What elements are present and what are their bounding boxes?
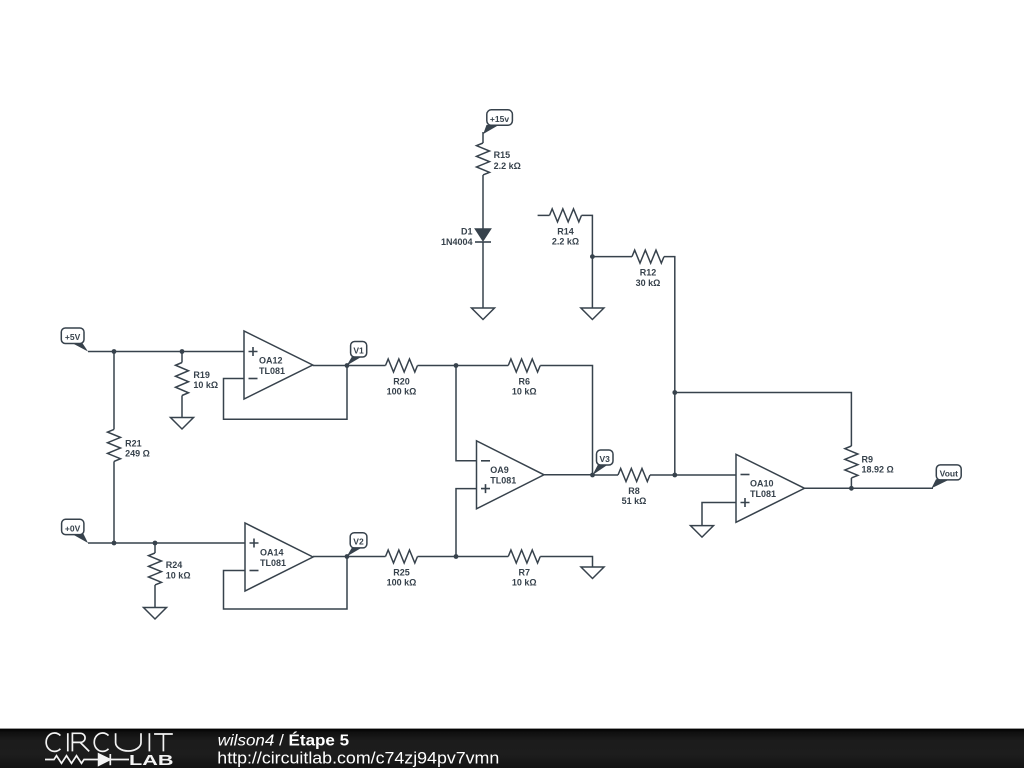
diode D1 bbox=[441, 226, 491, 247]
flag V3 bbox=[593, 450, 614, 475]
label R21 bbox=[125, 439, 150, 459]
label R19 bbox=[193, 370, 218, 390]
svg-text:R8: R8 bbox=[628, 486, 640, 496]
resistor R20 bbox=[386, 359, 418, 372]
logo diode symbol bbox=[99, 754, 129, 765]
label R7 bbox=[512, 568, 537, 588]
op-amp U4 OA10 bbox=[736, 454, 805, 522]
resistor R19 bbox=[176, 363, 189, 396]
wire R15 to diode D1 bbox=[482, 175, 484, 229]
node E junction R12/R9 rail bbox=[672, 390, 677, 395]
svg-text:V1: V1 bbox=[353, 346, 364, 356]
ground (OA10 +) bbox=[691, 526, 714, 538]
wire R19 to ground bbox=[181, 396, 183, 418]
svg-text:10 kΩ: 10 kΩ bbox=[512, 387, 537, 397]
svg-text:10 kΩ: 10 kΩ bbox=[193, 380, 218, 390]
op-amp U1 OA12 bbox=[244, 331, 313, 399]
wire node B to R7 bbox=[456, 556, 508, 558]
node V1 junction bbox=[345, 363, 350, 368]
wire node D to ground bbox=[591, 257, 593, 308]
label R24 bbox=[166, 560, 191, 581]
op-amp U3 OA9 bbox=[477, 441, 545, 509]
node C junction R8/R12 bbox=[672, 473, 677, 478]
wire OA9 noninverting input dropper bbox=[456, 489, 477, 557]
wire +5V rail to OA12 + input bbox=[88, 351, 244, 353]
svg-text:R19: R19 bbox=[193, 370, 210, 380]
svg-text:249 Ω: 249 Ω bbox=[125, 448, 150, 458]
wire node C to OA10 inverting input bbox=[675, 474, 736, 476]
resistor R12 bbox=[632, 250, 664, 263]
flag +5V bbox=[61, 328, 88, 352]
label R25 bbox=[387, 568, 417, 588]
wire R7 to ground bbox=[540, 557, 592, 568]
svg-text:100 kΩ: 100 kΩ bbox=[387, 387, 417, 397]
wire node D to R12 bbox=[592, 256, 632, 258]
wire OA10 noninverting input to ground bbox=[702, 503, 736, 526]
resistor R25 bbox=[386, 550, 418, 563]
ground (R7) bbox=[581, 567, 604, 579]
resistor R24 bbox=[149, 553, 162, 585]
svg-text:10 kΩ: 10 kΩ bbox=[512, 578, 537, 588]
svg-text:R24: R24 bbox=[166, 560, 183, 570]
wire OA12 output to V1 node bbox=[313, 365, 347, 367]
label R15 bbox=[494, 150, 521, 171]
svg-text:R12: R12 bbox=[640, 268, 657, 278]
ground (R19) bbox=[171, 418, 194, 430]
svg-text:2.2 kΩ: 2.2 kΩ bbox=[552, 236, 579, 246]
wire R24 branch top lead bbox=[154, 543, 156, 553]
wire node A to R6 bbox=[456, 365, 508, 367]
node junction +0V/R24 bbox=[153, 541, 158, 546]
svg-text:wilson4 / Étape 5: wilson4 / Étape 5 bbox=[218, 731, 350, 750]
node V3 junction bbox=[590, 473, 595, 478]
svg-text:R21: R21 bbox=[125, 439, 142, 449]
wire OA9 inverting input riser bbox=[456, 366, 477, 461]
resistor R8 bbox=[618, 469, 650, 482]
svg-text:R6: R6 bbox=[518, 377, 530, 387]
wire V3 node to R8 bbox=[593, 474, 619, 476]
label R12 bbox=[636, 268, 661, 288]
svg-text:R20: R20 bbox=[393, 377, 410, 387]
svg-text:R25: R25 bbox=[393, 568, 410, 578]
wire R20 to node A bbox=[418, 365, 457, 367]
svg-text:http://circuitlab.com/c74zj94p: http://circuitlab.com/c74zj94pv7vmn bbox=[217, 748, 499, 767]
wire R12 right down to node C bbox=[664, 257, 675, 475]
wire R21 branch top lead bbox=[113, 352, 115, 430]
svg-text:TL081: TL081 bbox=[750, 489, 776, 499]
resistor R9 bbox=[845, 446, 858, 478]
node junction +5V/R21 bbox=[112, 349, 117, 354]
wire +15v flag stem bbox=[482, 132, 484, 143]
wire V2 node to R25 bbox=[347, 556, 386, 558]
wire R14 right to node D bbox=[582, 215, 593, 256]
svg-text:V2: V2 bbox=[353, 537, 364, 547]
svg-text:R7: R7 bbox=[518, 568, 530, 578]
wire node E feedback rail to R9 bbox=[675, 393, 852, 447]
svg-text:V3: V3 bbox=[599, 454, 610, 464]
svg-text:51 kΩ: 51 kΩ bbox=[622, 496, 647, 506]
ground (D1) bbox=[472, 308, 495, 320]
svg-text:OA12: OA12 bbox=[259, 356, 283, 366]
svg-text:2.2 kΩ: 2.2 kΩ bbox=[494, 161, 521, 171]
svg-text:R9: R9 bbox=[862, 455, 874, 465]
svg-text:1N4004: 1N4004 bbox=[441, 237, 473, 247]
svg-text:LAB: LAB bbox=[129, 753, 174, 768]
resistor R15 bbox=[477, 143, 490, 175]
flag +15v bbox=[483, 110, 512, 134]
flag +0V bbox=[62, 519, 88, 543]
svg-text:OA9: OA9 bbox=[490, 465, 509, 475]
node A junction R20/R6 bbox=[454, 363, 459, 368]
svg-text:Vout: Vout bbox=[940, 469, 958, 479]
svg-text:TL081: TL081 bbox=[260, 558, 286, 568]
svg-text:TL081: TL081 bbox=[259, 366, 285, 376]
wire R21 bottom lead bbox=[113, 461, 115, 543]
svg-text:D1: D1 bbox=[461, 226, 473, 236]
wire R9 bottom to output bbox=[850, 478, 852, 488]
node junction +0V/R21 bbox=[112, 541, 117, 546]
node junction R9/Vout bbox=[849, 486, 854, 491]
svg-text:OA14: OA14 bbox=[260, 548, 284, 558]
resistor R14 bbox=[550, 209, 582, 222]
wire R19 branch top lead bbox=[181, 352, 183, 363]
node V2 junction bbox=[345, 554, 350, 559]
ground (R24) bbox=[144, 608, 167, 620]
resistor R7 bbox=[508, 550, 540, 563]
resistor R6 bbox=[508, 359, 540, 372]
flag V1 bbox=[347, 342, 367, 366]
resistor R21 bbox=[108, 429, 121, 461]
svg-text:30 kΩ: 30 kΩ bbox=[636, 278, 661, 288]
wire OA14 feedback loop bbox=[224, 557, 348, 610]
svg-text:+5V: +5V bbox=[65, 332, 81, 342]
label R20 bbox=[387, 377, 417, 397]
wire R8 to node C bbox=[650, 474, 675, 476]
svg-text:TL081: TL081 bbox=[490, 476, 516, 486]
node D junction R14/R12 bbox=[590, 254, 595, 259]
wire R25 to node B bbox=[418, 556, 457, 558]
wire OA9 output to V3 node bbox=[544, 474, 593, 476]
flag V2 bbox=[347, 533, 367, 557]
logo resistor squiggle bbox=[45, 756, 99, 764]
node junction +5V/R19 bbox=[180, 349, 185, 354]
label R14 bbox=[552, 226, 579, 246]
ground (R14 node D) bbox=[581, 308, 604, 320]
wire R6 right down to OA9 output bbox=[540, 366, 592, 476]
wire R14 left stub bbox=[538, 214, 550, 216]
svg-text:18.92 Ω: 18.92 Ω bbox=[862, 465, 894, 475]
wire OA12 feedback loop bbox=[224, 366, 348, 420]
wire +0V rail to OA14 + input bbox=[88, 542, 245, 544]
FOOTER bbox=[0, 729, 1024, 768]
svg-text:OA10: OA10 bbox=[750, 479, 774, 489]
svg-text:R15: R15 bbox=[494, 150, 511, 160]
svg-text:+0V: +0V bbox=[65, 523, 81, 533]
svg-text:R14: R14 bbox=[557, 226, 574, 236]
svg-text:+15v: +15v bbox=[490, 114, 509, 124]
wire OA10 output to Vout bbox=[805, 487, 934, 489]
wire V1 node to R20 bbox=[347, 365, 386, 367]
svg-text:10 kΩ: 10 kΩ bbox=[166, 571, 191, 581]
svg-text:100 kΩ: 100 kΩ bbox=[387, 578, 417, 588]
wire OA14 output to V2 node bbox=[313, 556, 347, 558]
logo CIRCUIT wordmark bbox=[46, 733, 173, 751]
wire D1 cathode to ground bbox=[482, 242, 484, 308]
node B junction R25/R7 bbox=[454, 554, 459, 559]
label R6 bbox=[512, 377, 537, 397]
op-amp U2 OA14 bbox=[245, 523, 313, 591]
flag Vout bbox=[932, 465, 962, 488]
label R9 bbox=[862, 455, 894, 475]
label R8 bbox=[622, 486, 647, 506]
wire R24 to ground bbox=[154, 585, 156, 608]
